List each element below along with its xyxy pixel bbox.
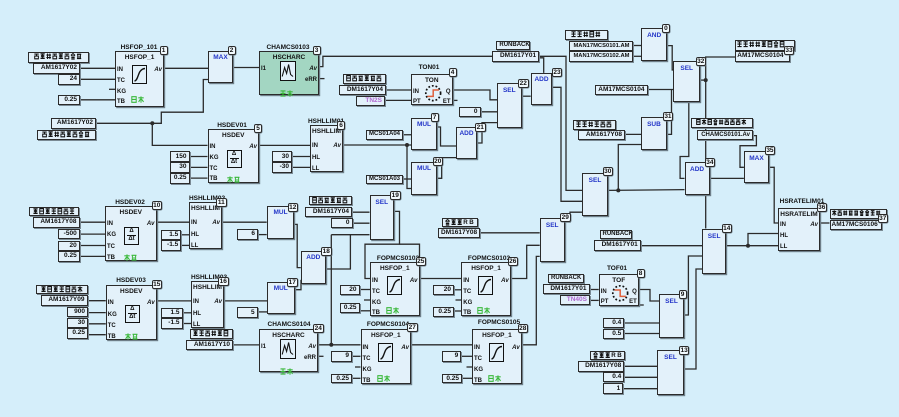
badge 37: [878, 214, 889, 223]
stub TOF01.ET: [639, 304, 644, 306]
junction SEL14 out: [746, 244, 750, 248]
junction SEL32 out: [704, 78, 708, 82]
label 一次风自动: [565, 30, 608, 40]
stub CHAMCS0104.eRR: [318, 355, 324, 357]
wire 20->HSDEV02.TC: [80, 245, 105, 247]
title HSHLLIM03: [179, 274, 239, 281]
wire 9->TC 0104: [352, 355, 361, 357]
wire MUL7->ADD21.in1: [437, 127, 456, 146]
badge 31: [663, 112, 674, 121]
value 30 HL: [272, 151, 292, 162]
stub CHAMCS0103.eRR: [319, 78, 325, 80]
badge 7: [431, 113, 439, 122]
wire HSDEV02.Av->HSHLLIM02.IN: [157, 221, 190, 223]
title HSRATELIM01: [776, 198, 828, 205]
tag DM1617Y04 (1): [339, 85, 386, 96]
wire -1.5->LL: [181, 244, 189, 246]
label 机组实际负荷指令 (2): [37, 130, 96, 141]
label 修正后一次风量指令: [830, 209, 887, 219]
wire 900->HSDEV03.KG: [88, 312, 106, 314]
value 20 (0103): [433, 285, 454, 296]
wire DM1617Y04->SEL19.in1: [352, 211, 370, 213]
wire 0.4->SEL9.in2: [624, 322, 659, 324]
value 30 HSDEV03: [67, 318, 88, 328]
value 1.5 (2): [161, 308, 183, 319]
stub KG 0102: [364, 299, 370, 301]
wire TN2S->TON01.PT: [385, 99, 411, 101]
value 900: [67, 307, 88, 317]
wire AM1617Y02->HSFOP_101.IN: [80, 67, 115, 69]
badge 33: [784, 46, 795, 55]
wire DM1617Y01->SEL14.in1: [641, 245, 702, 247]
tag AM1617Y02 (1): [33, 63, 80, 74]
wire 1->SEL13.in3: [623, 388, 657, 390]
deriv-block HSDEV02: [105, 206, 157, 262]
value -1.5 (1): [161, 240, 181, 251]
value 1.5 (1): [161, 230, 181, 241]
wire branch ->MUL20.in2: [407, 145, 411, 189]
wire 0.25->HSDEV03.TB: [88, 334, 106, 336]
title HSDEV03: [107, 277, 155, 284]
wire AM17MCS0104->SEL32.in2: [648, 89, 674, 91]
badge 27: [407, 323, 418, 332]
wire SEL13->SEL14.in3: [684, 269, 702, 369]
badge 17: [287, 278, 298, 287]
label RUNBACK (3): [548, 274, 584, 284]
selector SEL13: [657, 350, 684, 395]
value 0.25 (0105): [442, 374, 462, 384]
tag AM1617Y10: [186, 340, 233, 350]
badge 26: [508, 257, 519, 266]
stub TON01.ET: [453, 99, 458, 101]
title FOPMCS0102: [372, 255, 424, 262]
label 协调控制方式 (2): [309, 196, 352, 206]
wire 0.25->TB 0104: [352, 377, 361, 379]
wire MUL12->ADD18.in1: [294, 224, 300, 267]
wire HSDEV01.Av->HSHLLIM01.IN: [259, 144, 310, 146]
title HSFOP_101: [103, 44, 175, 51]
value 0 SEL22: [459, 107, 481, 117]
tag AM1617Y02 (2): [51, 118, 96, 129]
selector SEL19: [370, 195, 395, 240]
title HSHLLIM02: [177, 195, 237, 202]
wire 6->MUL12.in2: [258, 234, 267, 236]
tag MAN17MCS0102.AM: [569, 51, 633, 62]
tag DM1617Y01 (3): [543, 284, 590, 295]
badge 23: [552, 68, 563, 77]
wire junction up->SEL19.in3: [330, 235, 332, 345]
wire 5->MUL17.in2: [258, 311, 267, 313]
value 0.25 HSDEV02: [58, 251, 80, 262]
selector SEL32: [673, 61, 700, 103]
selector SEL30: [582, 173, 608, 216]
badge 36: [817, 203, 828, 212]
badge 22: [518, 79, 529, 88]
wire -1.5->LL03: [183, 323, 192, 325]
wire FOPMCS0102.Av->FOPMCS0103.IN: [420, 278, 462, 280]
badge 25: [416, 257, 427, 266]
title CHAMCS0103: [252, 44, 324, 51]
mult MUL7: [411, 118, 437, 150]
title HSDEV02: [106, 199, 154, 206]
svg-text:R: R: [611, 352, 616, 359]
subtract SUB31: [641, 117, 667, 150]
wire 0.5->SEL9.in3: [624, 333, 659, 335]
badge 12: [288, 203, 299, 212]
wire HSRATELIM->AM17MCS0106: [820, 222, 830, 224]
wire HSHLLIM03.Av->MUL17.in1: [224, 300, 267, 302]
svg-text:B: B: [617, 352, 622, 359]
tag MCS01A04: [366, 130, 404, 140]
value 0.4 (SEL13): [603, 372, 624, 382]
badge 14: [722, 224, 733, 233]
wire AM1617Y10->CHAMCS0104.I1: [233, 344, 259, 346]
wire ->SEL19.in3: [331, 234, 369, 236]
wire FOPMCS0104.Av->FOPMCS0105.IN: [411, 344, 472, 346]
wire 1.5->HL: [181, 234, 189, 236]
badge 16: [218, 277, 229, 286]
wire 0.25->TB 0103: [454, 310, 461, 312]
badge 8: [637, 269, 645, 278]
wire TN40S->TOF01.PT: [590, 299, 599, 301]
junction node load demand: [150, 121, 154, 125]
mult MUL20: [411, 162, 437, 195]
wire 0.25->TB 0105: [462, 377, 472, 379]
wire 30->HSDEV01.TC: [190, 166, 208, 168]
wire AM1617Y09->HSDEV03.IN: [88, 300, 106, 302]
wire SEL32.out: [700, 79, 706, 81]
wire HSFOP_101.Av->MAX2.in1: [164, 67, 208, 69]
svg-text:R: R: [463, 219, 468, 226]
wire HSHLLIM01.Av->MUL7.in2: [343, 144, 411, 146]
wire ADD21->SEL22.in3: [477, 123, 497, 143]
value 6: [237, 229, 258, 240]
timer TOF01: [599, 274, 639, 306]
wire ADD23->SEL30.in2 (long vertical): [552, 87, 582, 201]
tag MCS01A03: [366, 175, 404, 185]
wire HSHLLIM02.Av->MUL12.in1: [222, 221, 267, 223]
value 1: [603, 383, 623, 394]
wire -30->HSHLLIM01.LL: [292, 166, 310, 168]
wire DM1617Y08->SEL13.in1: [624, 365, 657, 367]
title HSHLLIM01: [296, 118, 356, 125]
logic MAX2: [208, 51, 233, 83]
badge 18: [321, 247, 332, 256]
label 给水泵RB (2): [590, 351, 625, 361]
badge 9: [679, 290, 687, 299]
stub HSFOP_101.KG: [109, 88, 115, 90]
wire MAX35->HSRATELIM.IN: [769, 167, 778, 223]
label 机组实际负荷指令 (1): [28, 52, 89, 63]
title HSDEV01: [208, 122, 256, 129]
value 0.25 HSFOP_101 TB: [58, 95, 80, 106]
value 0 SEL19: [331, 218, 353, 228]
wire ADD34->MAX35.in2: [710, 177, 744, 179]
wire 0.25->HSFOP_101.TB: [80, 99, 115, 101]
tag DM1617Y08 (2): [578, 361, 624, 372]
selector SEL29: [540, 218, 565, 262]
value 0.25 HSDEV03: [67, 328, 88, 339]
wire DM1617Y08->SEL29.in1: [480, 232, 540, 234]
mult MUL12: [267, 206, 295, 239]
badge 29: [560, 213, 571, 222]
stub KG 0104: [355, 366, 361, 368]
value -500: [58, 229, 80, 239]
tag AM1617Y08 (PA flow): [578, 130, 625, 140]
badge 5: [254, 124, 262, 133]
title FOPMCS0103: [463, 255, 515, 262]
limiter HSHLLIM03: [191, 281, 224, 328]
wire -500->HSDEV02.KG: [80, 233, 105, 235]
junction SEL30 out: [616, 188, 620, 192]
value 9 (0105): [442, 351, 461, 362]
label 主蒸汽压力指令: [36, 285, 88, 294]
label 一次风总风量: [573, 120, 616, 130]
tag AM1617Y08 (2): [33, 217, 80, 228]
wire 0.4->SEL13.in2: [624, 376, 657, 378]
title FOPMCS0104: [362, 321, 414, 328]
wire 0->SEL19.in2: [353, 222, 370, 224]
badge 15: [152, 280, 163, 289]
mult MUL17: [267, 282, 295, 314]
value 150: [170, 151, 190, 162]
value 0.25 (0103): [433, 307, 455, 317]
badge 32: [696, 57, 707, 66]
wire SEL30->ADD34.in2: [608, 189, 685, 192]
wire ADD18 up: [326, 235, 351, 269]
wire 20->TC 0103: [454, 289, 461, 291]
badge 20: [433, 157, 444, 166]
label 主蒸汽压力偏差: [29, 207, 79, 217]
badge 2: [228, 46, 236, 55]
limiter HSHLLIM02: [189, 202, 222, 249]
wire MCS01A03->MUL20.in1: [403, 178, 411, 180]
title TON01: [405, 64, 453, 71]
wire 0.25->HSDEV01.TB: [190, 177, 208, 179]
badge 24: [313, 324, 324, 333]
op-amp-block FOPMCS0104: [361, 329, 412, 384]
value 9 (0104): [331, 351, 352, 362]
logic AND: [641, 28, 667, 61]
charc-block CHAMCS0103 (green): [259, 51, 319, 95]
tag TN40S: [560, 295, 591, 305]
wire 20->TC 0102: [360, 289, 371, 291]
wire ->AM17MCS0104 out box: [706, 57, 736, 80]
adder ADD21: [456, 127, 477, 159]
label RUNBACK (1): [496, 41, 530, 51]
wire junction->MAX2.in2: [152, 80, 208, 124]
wire 1.5->HL03: [183, 312, 192, 314]
stub KG 0103: [456, 299, 462, 301]
value 0.25 HSDEV01: [170, 173, 190, 184]
label 给水泵RB (1): [442, 218, 478, 228]
wire junction->HSDEV01.IN: [152, 123, 207, 145]
title CHAMCS0104: [253, 321, 325, 328]
adder ADD18: [301, 251, 326, 285]
wire SEL29->SEL30.in3: [565, 212, 582, 222]
wire CHAMCS0104.Av->FOPMCS0104.IN: [318, 344, 361, 346]
value 30 HSDEV01: [170, 162, 190, 173]
charc-block CHAMCS0104: [259, 329, 318, 372]
badge 34: [705, 158, 716, 167]
badge 28: [518, 324, 529, 333]
op-amp-block FOPMCS0105: [472, 329, 522, 384]
wire MCS01A04->MUL7.in1: [403, 134, 411, 136]
junction CHAMCS0104 out: [329, 343, 333, 347]
label 协调控制方式 (1): [343, 74, 386, 84]
tag TN2S: [356, 96, 385, 106]
wire DM1617Y01->ADD23.top: [539, 58, 544, 73]
value 0.5: [603, 329, 624, 339]
selector SEL9: [659, 294, 684, 338]
adder ADD34: [685, 162, 710, 194]
tag DM1617Y01 (1): [492, 51, 540, 62]
title TOF01: [593, 265, 641, 272]
tag DM1617Y08 (1): [438, 228, 480, 239]
wire SEL32->SEL14.top (long): [705, 80, 707, 228]
ratelimiter HSRATELIM01: [778, 208, 820, 251]
limiter HSHLLIM01: [310, 125, 343, 172]
badge 21: [475, 123, 486, 132]
wire AM1617Y08->HSDEV02.IN: [80, 221, 106, 223]
value 20 HSDEV02: [58, 241, 80, 251]
badge 13: [679, 346, 690, 355]
op-amp-block HSFOP_101 (first order filter): [115, 51, 164, 107]
tag MAN17MCS0101.AM: [569, 41, 633, 51]
wire 150->HSDEV01.KG: [190, 156, 208, 158]
tag CHAMCS0101.Av: [697, 130, 753, 140]
wire CHAMCS0101.Av->MAX35.in1: [740, 136, 756, 168]
label 负荷对应最小一次风: [691, 118, 753, 128]
tag AM17MCS0106: [830, 220, 883, 230]
timer TON01: [411, 74, 453, 106]
svg-text:B: B: [469, 219, 474, 226]
tag AM17MCS0104 (out): [735, 51, 790, 62]
op-amp-block FOPMCS0103: [461, 262, 511, 316]
wire MUL20->ADD21.in2: [437, 158, 456, 179]
value 5: [237, 307, 257, 318]
wire MAN17MCS0101->AND.in1: [633, 45, 642, 47]
label 一次风量指令偏置: [735, 40, 795, 52]
wire MUL17->ADD18.in2: [295, 280, 302, 290]
wire MAX2->CHAMCS0103.I1: [233, 67, 259, 69]
tag AM17MCS0104 (in): [595, 85, 648, 95]
value 0.25 (0104): [331, 374, 352, 384]
wire junction->HSRATELIM.HL: [748, 234, 778, 246]
wire DM1617Y04->TON01.IN: [386, 89, 411, 91]
badge 1: [160, 46, 168, 55]
wire 9->TC 0105: [461, 355, 472, 357]
logic MAX35: [744, 151, 769, 184]
wire SEL19 spur: [400, 244, 420, 262]
junction HSHLLIM01.Av: [405, 143, 409, 147]
wire SUB31.out up to AM17MCS0104 net: [667, 90, 672, 135]
badge 19: [390, 191, 401, 200]
wire MAN17MCS0102->AND.in2: [633, 55, 642, 57]
wire HSDEV03.Av->HSHLLIM03.IN: [157, 300, 191, 302]
badge 3: [313, 46, 321, 55]
tag DM1617Y04 (2): [305, 207, 352, 218]
op-amp-block FOPMCS0102: [370, 262, 420, 316]
wire CHAMCS0103.Av->SEL30.in1 (long): [319, 56, 582, 190]
selector SEL14: [702, 229, 726, 274]
wire junction->SUB31.in2: [618, 145, 641, 191]
wire TOF01.Q->SEL9.in1: [639, 290, 659, 302]
adder ADD23: [531, 73, 553, 105]
wire 24->HSFOP_101.TC: [80, 78, 115, 80]
wire SEL32.out2->ADD34.in1: [680, 102, 689, 178]
value 20 (0102): [340, 285, 360, 295]
badge 30: [603, 167, 614, 176]
wire DM1617Y01->TOF01.IN: [590, 289, 599, 291]
selector SEL22: [497, 83, 522, 128]
badge 11: [216, 198, 227, 207]
wire TON01.Q->SEL22.in1: [453, 90, 498, 100]
wire FOPMCS0105.Av->SEL29.in3: [522, 256, 540, 344]
label 总给煤量指令: [190, 329, 233, 339]
wire FOPMCS0103.Av->SEL29.in2: [511, 245, 540, 278]
value 24: [58, 74, 80, 85]
tag AM1617Y09: [41, 295, 88, 306]
badge 6: [337, 121, 345, 130]
wire 0->SEL22.in2: [481, 111, 498, 113]
tag DM1617Y01 (2): [594, 240, 641, 250]
value 0.4 (SEL9): [603, 318, 624, 328]
deriv-block HSDEV01: [208, 129, 260, 184]
badge 0 (AND): [662, 24, 670, 33]
stub KG 0105: [467, 366, 473, 368]
wire SEL9->SEL14.in2: [684, 256, 702, 315]
value -1.5 (2): [161, 318, 183, 329]
wire AND->SEL32.in1: [667, 46, 675, 70]
wire AM1617Y02b->junction: [96, 122, 152, 124]
wire 0.25->HSDEV02.TB: [80, 255, 105, 257]
badge 4: [449, 68, 457, 77]
wire 30->HSDEV03.TC: [88, 323, 106, 325]
badge 35: [765, 146, 776, 155]
deriv-block HSDEV03: [106, 285, 157, 339]
value 0.25 (0102): [340, 303, 360, 313]
value -30 LL: [272, 162, 292, 173]
label RUNBACK (2): [600, 230, 633, 239]
badge 10: [152, 201, 163, 210]
wire AM1617Y08->SUB31.in1: [625, 133, 641, 135]
wire 0.25->TB 0102: [360, 310, 371, 312]
wire SEL14->HSRATELIM.LL: [726, 245, 778, 247]
wire 30->HSHLLIM01.HL: [292, 156, 310, 158]
title FOPMCS0105: [473, 319, 525, 326]
wire SEL19->FOPMCS0102.IN: [365, 211, 400, 278]
wire SEL22->ADD23.in: [522, 95, 531, 97]
